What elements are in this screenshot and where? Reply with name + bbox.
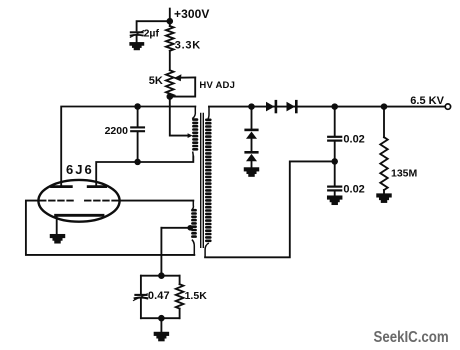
diode D3 — [246, 129, 258, 132]
capacitor C5 0.02 — [334, 161, 336, 186]
wire to C1 — [137, 21, 170, 30]
wire — [251, 139, 253, 152]
node filter top — [332, 104, 337, 109]
wire B+ to primary tap — [170, 97, 188, 136]
diode D1 — [266, 102, 275, 112]
svg-text:6J6: 6J6 — [66, 162, 94, 177]
transformer secondary — [207, 107, 210, 119]
wire secondary return — [205, 161, 335, 257]
svg-text:1.5K: 1.5K — [185, 290, 208, 302]
ground (clamp diodes) — [245, 168, 259, 170]
ground (RC) — [155, 333, 169, 335]
RC network rails — [141, 276, 180, 319]
tube plate (right) — [88, 185, 105, 188]
wire grid tap to RC — [160, 228, 162, 276]
resistor R4 135M — [383, 107, 385, 138]
ground (C5) — [328, 196, 342, 198]
svg-text:0.47: 0.47 — [148, 290, 170, 302]
potentiometer R2 5K — [166, 70, 174, 96]
resistor R3 1.5K — [179, 276, 181, 285]
ground (C1) — [130, 43, 143, 45]
transformer primary lower (grid winding) — [192, 201, 193, 210]
wire right grid — [120, 200, 194, 202]
svg-text:2200: 2200 — [105, 125, 129, 137]
svg-text:+300V: +300V — [174, 7, 210, 21]
svg-text:2µf: 2µf — [144, 27, 160, 39]
tube V1 6J6 envelope — [38, 180, 119, 222]
svg-text:0.02: 0.02 — [343, 183, 364, 195]
tube plate (left) — [52, 185, 72, 188]
svg-text:HV ADJ: HV ADJ — [199, 80, 235, 91]
node RC bottom — [159, 316, 164, 321]
diode D2 — [287, 102, 296, 112]
capacitor C1 2uf — [131, 31, 143, 33]
node wiper junction — [167, 94, 172, 99]
wire clamp string — [251, 107, 253, 130]
wire R1 to R2 — [169, 51, 171, 70]
tube cathode — [56, 214, 103, 217]
node B+ junction — [167, 19, 172, 24]
wire grid winding tap — [161, 227, 188, 229]
capacitor C4 0.02 — [334, 107, 336, 137]
tube grids (dashed) — [40, 200, 74, 202]
node clamp junction — [249, 104, 254, 109]
output terminal — [445, 104, 450, 109]
transformer T1 core — [201, 114, 204, 248]
primary center tap arrow — [188, 133, 193, 138]
capacitor C3 0.47 — [140, 276, 142, 294]
svg-text:SeekIC.com: SeekIC.com — [374, 329, 449, 346]
node RC top — [159, 273, 164, 278]
svg-text:0.02: 0.02 — [343, 133, 364, 145]
resistor R1 3.3K — [166, 26, 174, 51]
ground (R4) — [377, 194, 391, 196]
wire B+ input — [169, 9, 171, 26]
pot wiper arrow — [181, 76, 196, 78]
node filter mid — [332, 159, 337, 164]
wire RC to ground — [160, 318, 162, 333]
capacitor C2 2200 — [137, 107, 139, 127]
wire right plate to primary bottom — [96, 157, 193, 186]
svg-text:135M: 135M — [391, 167, 418, 179]
wire HV bus — [209, 106, 445, 108]
svg-text:3.3K: 3.3K — [175, 40, 201, 52]
wire — [251, 161, 253, 168]
diode D4 — [246, 151, 258, 154]
node C2 bottom — [135, 160, 140, 165]
ground (cathode) — [51, 235, 65, 237]
svg-text:6.5 KV: 6.5 KV — [410, 95, 444, 107]
node C2 top — [135, 104, 140, 109]
wire plate bus (left plate to primary top) — [61, 107, 195, 186]
wire wiper loop — [170, 77, 195, 96]
node bleeder top — [382, 104, 387, 109]
svg-text:5K: 5K — [149, 75, 163, 87]
transformer primary upper (plate winding) — [193, 107, 196, 119]
wire left grid — [26, 201, 194, 255]
